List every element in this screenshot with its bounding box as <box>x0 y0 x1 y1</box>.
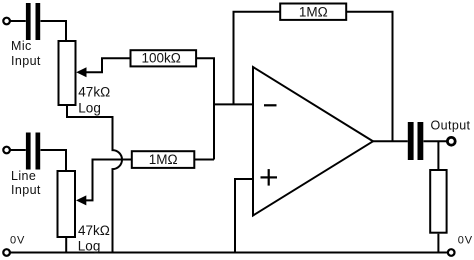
svg-text:1MΩ: 1MΩ <box>299 5 328 20</box>
svg-text:Mic: Mic <box>11 39 32 53</box>
svg-text:0V: 0V <box>10 235 25 247</box>
svg-text:0V: 0V <box>458 235 473 247</box>
svg-text:Log: Log <box>78 101 101 116</box>
svg-text:47kΩ: 47kΩ <box>78 85 110 100</box>
svg-text:100kΩ: 100kΩ <box>142 50 181 65</box>
svg-text:Log: Log <box>78 239 101 254</box>
svg-text:Output: Output <box>431 119 471 133</box>
svg-text:Input: Input <box>11 183 41 197</box>
svg-text:1MΩ: 1MΩ <box>149 152 178 167</box>
svg-text:Input: Input <box>11 54 41 68</box>
svg-text:Line: Line <box>11 169 36 183</box>
svg-text:47kΩ: 47kΩ <box>78 223 110 238</box>
